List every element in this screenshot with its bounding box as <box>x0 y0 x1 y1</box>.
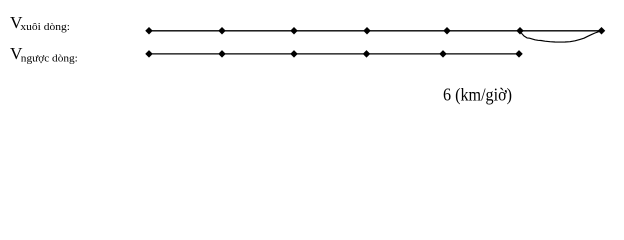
node diamond B3 <box>290 50 298 58</box>
node diamond B5 <box>439 50 447 58</box>
node diamond B1 <box>145 50 153 58</box>
node diamond T1 <box>145 27 153 35</box>
svg-text:xuôi dòng:: xuôi dòng: <box>20 21 70 33</box>
node diamond T4 <box>363 27 371 35</box>
node diamond B2 <box>218 50 226 58</box>
node diamond T7 <box>598 27 606 35</box>
svg-text:ngược dòng:: ngược dòng: <box>21 52 78 64</box>
node diamond T6 <box>516 27 524 35</box>
wire bottom line <box>149 53 519 55</box>
wire top line <box>149 30 602 32</box>
curve brace under last top segment <box>522 31 601 42</box>
node diamond T5 <box>443 27 451 35</box>
node diamond B6 <box>515 50 523 58</box>
node diamond B4 <box>363 50 371 58</box>
node diamond T2 <box>218 27 226 35</box>
svg-text:6 (km/giờ): 6 (km/giờ) <box>443 84 512 105</box>
node diamond T3 <box>290 27 298 35</box>
